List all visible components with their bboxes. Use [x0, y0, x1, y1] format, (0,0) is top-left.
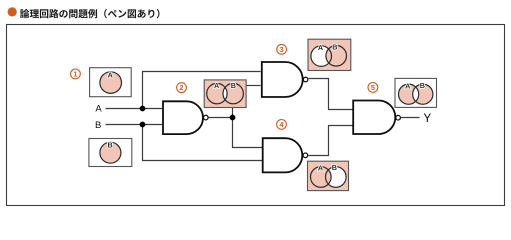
- svg-text:Y: Y: [423, 113, 431, 125]
- svg-text:5: 5: [371, 83, 375, 92]
- wire input B to gate U2: [106, 124, 164, 126]
- venn box 5: A XOR B: [395, 78, 437, 107]
- label 2: [177, 83, 187, 93]
- venn box 3: NOT A OR B: [308, 39, 351, 70]
- wire gate U4 output to gate U5 input 2: [308, 126, 353, 156]
- wire node B down to gate U4 input 2: [143, 125, 263, 161]
- NAND gate U4: [263, 138, 308, 172]
- svg-text:B: B: [107, 141, 112, 150]
- wire node A up to gate U3 input 1: [143, 72, 261, 109]
- svg-text:3: 3: [280, 45, 284, 54]
- wire venn box 2 to gate U3 input 2: [246, 85, 261, 87]
- title text 論理回路の問題例（ペン図あり）: [20, 9, 160, 18]
- wire gate U3 output to gate U5 input 1: [309, 79, 354, 110]
- label 5: [368, 83, 378, 93]
- svg-text:A: A: [405, 81, 410, 90]
- svg-text:A: A: [214, 81, 219, 90]
- svg-text:A: A: [318, 163, 323, 172]
- svg-text:2: 2: [179, 83, 183, 92]
- svg-text:A: A: [95, 104, 102, 115]
- junction node A: [140, 106, 146, 112]
- label 3: [277, 44, 287, 54]
- wire input A to gate U2: [106, 108, 164, 110]
- wire gate U2 output to node N2: [208, 117, 233, 119]
- svg-text:B: B: [231, 81, 236, 90]
- venn box 1: set A: [90, 68, 132, 97]
- svg-text:1: 1: [73, 70, 77, 79]
- wire node N2 down to gate U4 input 1: [233, 118, 263, 148]
- junction node N2: [230, 115, 236, 121]
- svg-text:B: B: [332, 42, 337, 51]
- venn box B: set B: [89, 139, 132, 167]
- wire node N2 up into venn box 2: [232, 107, 234, 117]
- svg-text:B: B: [95, 120, 101, 131]
- svg-text:B: B: [420, 81, 425, 90]
- venn box 4: A OR NOT B: [308, 161, 349, 190]
- wire gate U5 output to Y: [401, 117, 420, 119]
- venn box 2: NAND A·B: [204, 80, 246, 108]
- title bullet: [8, 7, 17, 16]
- label 1: [71, 69, 81, 79]
- svg-text:A: A: [318, 43, 323, 52]
- NAND gate U5: [353, 101, 400, 135]
- svg-text:A: A: [108, 70, 113, 79]
- NAND gate U2: [163, 101, 208, 134]
- label 4: [277, 120, 287, 130]
- svg-text:B: B: [332, 163, 337, 172]
- junction node B: [140, 122, 146, 128]
- NAND gate U3: [262, 62, 308, 97]
